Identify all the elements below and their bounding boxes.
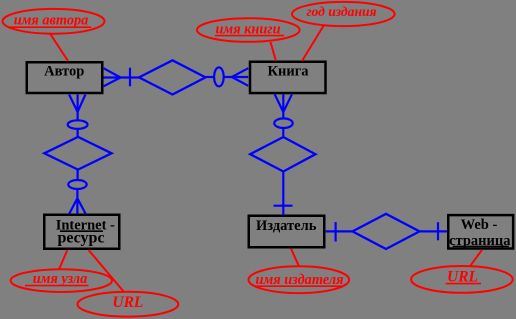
- svg-text:Web -: Web -: [461, 217, 498, 233]
- wire D4 to Web-страница: [420, 230, 448, 232]
- entity Web-страница: [448, 215, 513, 249]
- svg-text:имя издателя: имя издателя: [256, 272, 344, 288]
- optionality circle above Internet-ресурс: [68, 180, 86, 189]
- svg-text:Издатель: Издатель: [256, 218, 317, 234]
- optionality circle below Автор: [68, 120, 88, 129]
- relationship diamond D4 (Издатель-Web): [353, 214, 420, 249]
- svg-text:ресурс: ресурс: [57, 229, 104, 246]
- wire Автор bottom crow's foot: [69, 95, 85, 121]
- attribute ellipse год издания: [292, 2, 395, 26]
- svg-text:Книга: Книга: [267, 64, 309, 80]
- attribute line год издания to Книга: [302, 25, 324, 61]
- svg-text:URL: URL: [112, 294, 143, 311]
- relationship diamond D2 (Автор-Internet): [44, 137, 111, 170]
- entity Internet-ресурс: [44, 215, 119, 249]
- cardinality bar on Автор side: [129, 68, 131, 87]
- wire circle to D3: [282, 128, 284, 137]
- attribute line Internet-ресурс to URL: [89, 250, 124, 292]
- attribute ellipse имя издателя: [248, 266, 349, 293]
- attribute line Web-страница to URL: [470, 250, 482, 266]
- attribute ellipse URL (Internet-ресурс): [78, 292, 179, 317]
- entity Книга: [250, 62, 326, 93]
- svg-text:Автор: Автор: [44, 64, 84, 80]
- wire circle to Internet-ресурс with crow's foot: [69, 189, 86, 214]
- attribute line Internet-ресурс to имя узла: [59, 250, 67, 270]
- attribute line имя книги to Книга: [271, 42, 277, 61]
- svg-text:имя автора: имя автора: [14, 12, 89, 28]
- wire D1 to Книга with circle and crow's foot: [206, 68, 249, 86]
- optionality circle below Книга: [274, 118, 292, 128]
- attribute ellipse имя узла: [11, 269, 112, 292]
- cardinality bar on Издатель side: [335, 222, 337, 241]
- attribute ellipse имя автора: [3, 9, 105, 34]
- entity Издатель: [249, 216, 325, 248]
- wire circle to D2: [76, 129, 78, 137]
- wire Издатель to D4: [326, 230, 353, 232]
- wire D2 to circle: [76, 170, 78, 180]
- relationship diamond D3 (Книга-Издатель): [250, 137, 315, 172]
- svg-text:год издания: год издания: [306, 4, 376, 19]
- attribute ellipse URL (Web-страница): [411, 266, 513, 293]
- optionality circle near Книга: [214, 67, 224, 86]
- attribute line Издатель to имя издателя: [291, 249, 299, 267]
- wire Книга bottom crow's foot: [275, 94, 292, 118]
- relationship diamond D1 (Автор-Книга): [139, 60, 206, 94]
- wire D3 to Издатель: [282, 172, 284, 216]
- cardinality bar on Web side: [437, 222, 439, 240]
- wire Автор to D1 with crow's foot: [104, 68, 140, 86]
- entity Автор: [27, 62, 103, 93]
- cardinality bar above Издатель: [274, 205, 293, 207]
- attribute ellipse имя книги: [197, 18, 300, 42]
- attribute line имя автора to Автор: [50, 34, 68, 62]
